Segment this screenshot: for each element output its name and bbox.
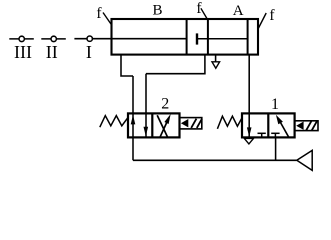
svg-text:A: A (233, 3, 244, 19)
svg-text:f: f (196, 0, 202, 17)
svg-text:III: III (14, 42, 32, 62)
svg-text:f: f (96, 5, 102, 22)
svg-text:I: I (86, 42, 92, 62)
svg-text:f: f (269, 7, 275, 24)
svg-text:1: 1 (271, 96, 279, 113)
svg-text:II: II (46, 42, 58, 62)
svg-text:B: B (152, 2, 162, 18)
svg-text:2: 2 (161, 96, 169, 113)
